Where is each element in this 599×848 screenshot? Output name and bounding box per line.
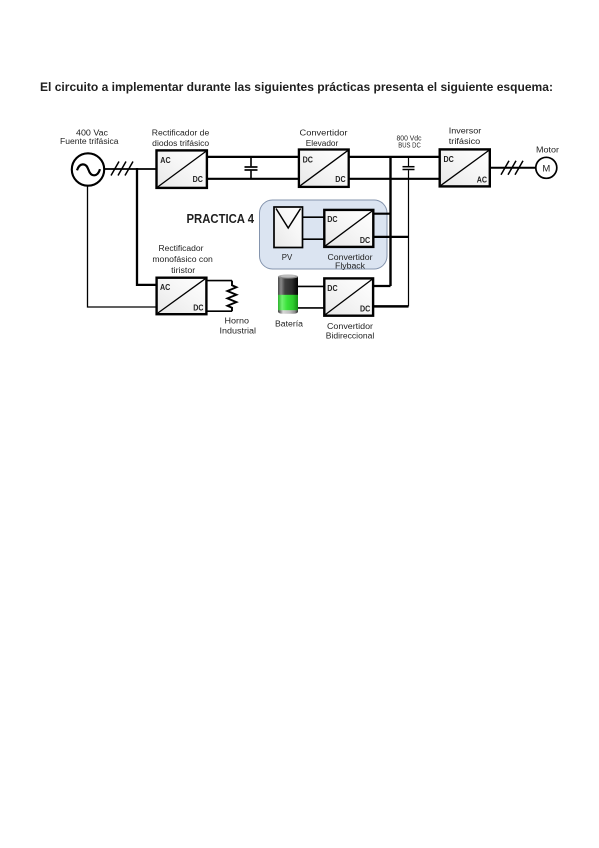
rectifier U1 (AC/DC block) (157, 150, 207, 188)
wire: top rail elevador to inverter (349, 156, 440, 158)
svg-text:Motor: Motor (536, 146, 559, 155)
svg-text:Horno: Horno (225, 316, 250, 325)
wire: rectifier to furnace resistor top (206, 280, 232, 282)
wire: battery to bidireccional bottom (298, 307, 324, 309)
three-phase slash marks (111, 162, 133, 176)
wire: branch down to monofasic rectifier AC input (137, 168, 157, 285)
label: 800 Vdc BUS DC (397, 135, 422, 149)
capacitor C2 (800 Vdc bus) (403, 157, 415, 170)
practica 4 highlight box (260, 200, 388, 269)
svg-text:PV: PV (282, 253, 293, 262)
svg-text:Batería: Batería (275, 319, 304, 328)
svg-text:DC: DC (360, 235, 370, 245)
svg-text:AC: AC (160, 282, 170, 292)
label: Inversor trifasico (449, 126, 482, 145)
wire: flyback top output to bus 1 (373, 213, 390, 215)
svg-text:BUS DC: BUS DC (398, 143, 421, 150)
svg-text:Inversor: Inversor (449, 126, 482, 135)
svg-text:DC: DC (335, 174, 345, 184)
svg-text:Fuente trifásica: Fuente trifásica (60, 137, 119, 146)
wire: PV to flyback bottom (303, 238, 325, 240)
three-phase slash marks at motor (501, 161, 523, 175)
wire: bidireccional bottom output to bus 2 (373, 305, 408, 308)
svg-text:DC: DC (193, 303, 203, 313)
flyback converter U4 (DC/DC block) (324, 210, 373, 247)
svg-text:Elevador: Elevador (306, 139, 339, 148)
svg-text:DC: DC (327, 214, 337, 224)
label: Convertidor Flyback (328, 253, 373, 270)
label: Convertidor Bidireccional (326, 322, 375, 341)
svg-text:trifásico: trifásico (449, 137, 481, 146)
label: Horno Industrial (220, 316, 257, 335)
svg-text:Rectificador: Rectificador (159, 244, 204, 253)
svg-text:AC: AC (160, 155, 170, 165)
wire: source to rectifier (104, 168, 156, 170)
bus node positive: vertical bus 1 (389, 157, 391, 286)
svg-text:AC: AC (477, 175, 487, 185)
wire: PV to flyback top (303, 216, 325, 218)
thyristor rectifier U6 (AC/DC block) (157, 278, 207, 315)
boost converter U2 (DC/DC block) (299, 150, 349, 187)
wire: inverter to motor (490, 167, 536, 169)
wire: battery to bidireccional top (298, 285, 324, 287)
svg-text:M: M (542, 163, 550, 174)
svg-text:monofásico con: monofásico con (152, 255, 213, 264)
svg-text:400 Vac: 400 Vac (76, 128, 108, 137)
wire: bottom rail elevador to inverter (349, 178, 440, 180)
svg-text:DC: DC (360, 304, 370, 314)
label: Rectificador de diodos trifasico (152, 129, 210, 149)
svg-text:DC: DC (327, 283, 337, 293)
capacitor C1 (DC link) (245, 157, 258, 179)
svg-text:DC: DC (303, 154, 313, 164)
svg-text:DC: DC (193, 174, 203, 184)
bus node negative: vertical bus 2 (408, 170, 410, 306)
label: Rectificador monofasico con tiristor (152, 244, 213, 275)
svg-text:Convertidor: Convertidor (300, 128, 348, 137)
svg-text:PRACTICA 4: PRACTICA 4 (187, 211, 255, 226)
battery BT1 (278, 274, 298, 313)
wire: rectifier to furnace resistor bottom (206, 310, 232, 312)
svg-text:tiristor: tiristor (171, 266, 195, 275)
wire: bidireccional top output to bus 1 (373, 285, 390, 287)
svg-text:Rectificador de: Rectificador de (152, 129, 210, 138)
label: 400 Vac Fuente trifasica (60, 128, 119, 146)
svg-text:Flyback: Flyback (335, 261, 366, 270)
AC source G1 (72, 153, 104, 185)
wire: flyback bottom output to bus 2 (373, 236, 408, 238)
wire: source bottom to monofasic rectifier lower input (88, 186, 157, 307)
inverter U3 (DC/AC block) (440, 149, 490, 186)
wire: DC bus bottom rail rectifier to elevador (207, 178, 299, 180)
bidirectional converter U5 (DC/DC block) (324, 278, 373, 315)
svg-text:800 Vdc: 800 Vdc (397, 135, 422, 142)
label: Convertidor Elevador (300, 128, 348, 148)
svg-text:Bidireccional: Bidireccional (326, 332, 375, 341)
svg-text:Industrial: Industrial (220, 326, 257, 335)
svg-text:Convertidor: Convertidor (327, 322, 373, 331)
motor M1 (536, 157, 557, 178)
wire: DC bus top rail rectifier to elevador (207, 156, 299, 158)
svg-text:El circuito a implementar dura: El circuito a implementar durante las si… (40, 81, 553, 94)
resistor R1 (horno industrial) (227, 281, 236, 312)
svg-text:diodos trifásico: diodos trifásico (152, 139, 210, 148)
svg-text:DC: DC (444, 154, 454, 164)
PV panel (274, 207, 303, 248)
